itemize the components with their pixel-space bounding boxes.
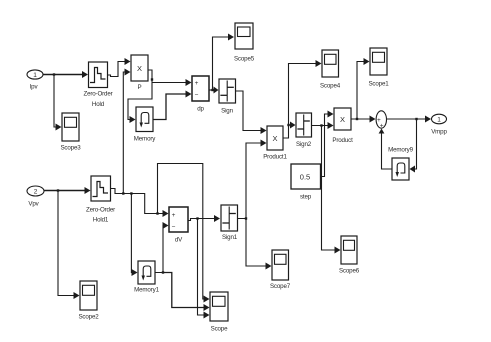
scope Scope6 [339, 236, 360, 275]
node junction sum output [415, 118, 417, 120]
node junction on Sign2 output [320, 124, 322, 126]
svg-text:−: − [195, 92, 199, 99]
svg-text:Scope6: Scope6 [339, 268, 360, 275]
svg-text:Sign2: Sign2 [296, 141, 312, 148]
wire branch down to Scope3 [54, 75, 62, 131]
scope Scope1 [368, 48, 389, 88]
svg-text:dp: dp [197, 106, 204, 113]
scope Scope [210, 292, 228, 333]
svg-text:Scope2: Scope2 [78, 314, 99, 321]
svg-text:Scope: Scope [211, 326, 229, 333]
memory Memory [134, 107, 157, 143]
svg-text:−: − [172, 224, 176, 231]
sign Sign1 [221, 205, 238, 241]
wire Memory9 to sum bottom input [379, 129, 392, 170]
scope Scope5 [234, 23, 255, 63]
wire branch up to Scope1 [357, 58, 370, 119]
sum dp [192, 76, 209, 113]
svg-text:Product: Product [332, 137, 353, 144]
zero-order hold ZOH [83, 62, 112, 108]
memory Memory9 flipped [388, 147, 413, 181]
node junction on Ipv wire [53, 73, 55, 75]
wire branch dV output down to Scope third input [198, 219, 210, 319]
node junction on Vpv wire [57, 189, 59, 191]
svg-text:Memory: Memory [134, 136, 157, 143]
wire dV to Sign1 [188, 215, 220, 222]
svg-text:Vpv: Vpv [28, 201, 39, 208]
wire sum to Vmpp output [387, 116, 432, 123]
node junction dV output [196, 217, 198, 219]
wire ZOH1 up to product P input 2 [123, 69, 130, 194]
sign Sign [219, 79, 236, 115]
wire loop branch up over to Scope first input [158, 164, 210, 303]
node junction Product1 output [287, 124, 289, 126]
svg-text:Sign: Sign [221, 108, 233, 115]
svg-text:2: 2 [34, 189, 38, 196]
wire P output loop to Memory [128, 70, 152, 123]
scope Scope4 [320, 50, 341, 90]
input port 1 Ipv [27, 70, 43, 91]
wire branch down to Scope2 [58, 191, 80, 300]
svg-text:Sign1: Sign1 [222, 234, 238, 241]
svg-text:1: 1 [33, 72, 37, 79]
node junction dp output [211, 89, 213, 91]
svg-text:Scope1: Scope1 [368, 81, 389, 88]
wire branch Sign1 down to Scope7 [246, 219, 272, 270]
svg-text:Scope3: Scope3 [60, 145, 81, 152]
svg-text:dV: dV [175, 237, 183, 244]
svg-text:X: X [340, 115, 345, 124]
svg-text:0.5: 0.5 [300, 173, 310, 182]
sign Sign2 [296, 113, 312, 148]
svg-text:1: 1 [437, 117, 441, 124]
svg-text:Scope7: Scope7 [270, 283, 291, 290]
step 0.5 constant [291, 164, 321, 201]
svg-text:P: P [138, 84, 142, 91]
svg-text:Zero-Order: Zero-Order [83, 91, 112, 98]
wire branch up to Scope4 [289, 60, 322, 125]
scope Scope2 [78, 281, 99, 321]
svg-text:step: step [300, 194, 312, 201]
wire branch P output to dp plus input [152, 79, 192, 86]
svg-text:+: + [380, 123, 384, 130]
svg-text:+: + [172, 212, 176, 219]
scope Scope7 [270, 250, 291, 290]
node junction Sign1 output [245, 217, 247, 219]
svg-text:+: + [195, 80, 199, 87]
svg-text:Vmpp: Vmpp [431, 129, 447, 136]
product P [131, 55, 148, 91]
node junction ZOH1 out to Memory1 [130, 192, 132, 194]
wire dp to Sign [209, 87, 219, 94]
svg-text:Zero-Order: Zero-Order [86, 207, 115, 214]
wire Product to sum [351, 116, 376, 123]
wire branch down to Memory1 [131, 194, 137, 277]
output port 1 Vmpp [431, 114, 447, 135]
node junction ZOH1 out to P [122, 192, 124, 194]
wire branch dp output up to Scope5 [213, 34, 235, 91]
wire Memory1 to dV minus input [155, 222, 169, 273]
wire Sign2 to Product input 2 [312, 122, 334, 129]
wire ZOH1 output main run to dV plus input [111, 189, 169, 218]
wire Vpv to Zero-Order Hold1 [44, 187, 91, 194]
memory Memory1 [134, 261, 159, 294]
svg-text:Memory1: Memory1 [134, 287, 159, 294]
wire Ipv to Zero-Order Hold [43, 71, 88, 78]
svg-text:Hold: Hold [92, 101, 105, 108]
wire Sign to Product1 input 1 [236, 91, 267, 134]
product Product1 [263, 126, 287, 161]
scope Scope3 [60, 113, 81, 152]
zero-order hold ZOH1 [86, 176, 115, 224]
wire Memory to dp minus input [153, 91, 192, 120]
svg-text:Hold1: Hold1 [93, 217, 109, 224]
svg-text:X: X [272, 134, 277, 143]
svg-text:Scope4: Scope4 [320, 83, 341, 90]
product Product [332, 108, 353, 144]
svg-text:Scope5: Scope5 [234, 56, 255, 63]
wire step up to Product input 1 [321, 111, 334, 177]
sum round Add [376, 111, 386, 130]
sum dV [169, 207, 188, 244]
svg-text:Ipv: Ipv [30, 84, 39, 91]
wire branch Memory1 to Scope second input [163, 273, 210, 312]
wire Sign1 to Product1 input 2 [238, 140, 267, 219]
wire branch down to Memory9 input [410, 119, 417, 173]
wire Product1 to Sign2 [283, 122, 296, 139]
node junction Memory1 output [162, 271, 164, 273]
wire branch down to Scope6 [322, 126, 341, 254]
svg-text:Product1: Product1 [263, 154, 287, 161]
node junction Product output [356, 118, 358, 120]
input port 2 Vpv [27, 186, 44, 208]
svg-text:X: X [137, 64, 142, 73]
wire ZOH to product P input 1 [108, 58, 131, 77]
svg-text:Memory9: Memory9 [388, 147, 413, 154]
node junction on P output [151, 78, 153, 80]
node junction on dV plus wire [156, 212, 158, 214]
